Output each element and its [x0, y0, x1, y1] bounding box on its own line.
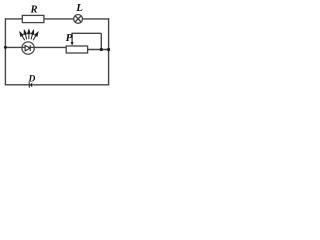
- wire bottom-left segment: [5, 84, 29, 86]
- LED light ray 2: [25, 33, 27, 39]
- wire top-right segment: [82, 18, 109, 20]
- LED light ray 1: [20, 30, 38, 41]
- LED wire through: [22, 46, 34, 48]
- LED light ray 5: [33, 35, 36, 40]
- svg-text:R: R: [30, 5, 38, 16]
- node junction dot right: [107, 48, 110, 51]
- svg-text:D: D: [28, 74, 36, 84]
- wire bottom-right segment: [32, 84, 108, 86]
- wire middle branch left: [5, 46, 22, 48]
- node junction dot left: [4, 46, 7, 49]
- LED light ray 3: [28, 33, 30, 39]
- svg-text:L: L: [75, 2, 83, 14]
- diode D triangle: [30, 83, 33, 88]
- node junction dot slider: [100, 48, 103, 51]
- svg-text:P: P: [66, 32, 73, 44]
- wire slider drop to node: [100, 33, 102, 49]
- wire pot to right side: [88, 49, 109, 51]
- potentiometer P body: [66, 46, 87, 53]
- wire slider horizontal run: [71, 32, 101, 34]
- LED body circle: [22, 42, 34, 54]
- lamp L cross stroke 1: [75, 16, 81, 22]
- wire top-middle segment: [44, 18, 74, 20]
- resistor R1 body: [22, 15, 44, 22]
- potentiometer slider arrowhead: [71, 42, 74, 46]
- wire left side: [4, 18, 6, 85]
- lamp L cross stroke 2: [75, 16, 81, 22]
- wire slider vertical shaft: [71, 33, 73, 43]
- lamp L body circle: [74, 15, 83, 24]
- LED light ray 4: [31, 33, 33, 39]
- wire middle branch LED-to-pot: [34, 46, 66, 48]
- wire top-left segment: [5, 18, 22, 20]
- diode D cathode bar: [28, 82, 30, 88]
- LED diode cathode bar: [29, 45, 31, 51]
- wire right side: [108, 18, 110, 85]
- LED diode triangle: [25, 45, 30, 50]
